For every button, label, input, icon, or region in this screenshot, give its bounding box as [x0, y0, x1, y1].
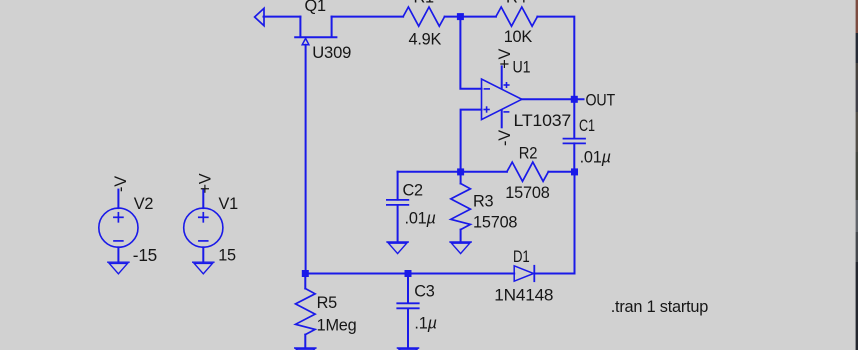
node wien right junction: [571, 168, 578, 175]
svg-text:R4: R4: [506, 0, 527, 7]
ground below C2: [387, 242, 408, 254]
wire Q1 gate down to bottom row: [305, 45, 307, 274]
svg-text:R5: R5: [317, 294, 338, 312]
wire C1 to wien right node: [573, 143, 575, 171]
wire R1 to R4 through node: [445, 16, 496, 18]
wire bottom right corner to D1 cathode: [534, 273, 574, 275]
svg-text:U1: U1: [513, 58, 531, 76]
voltage source V2 -15: [99, 190, 157, 265]
svg-text:OUT: OUT: [586, 91, 616, 109]
node R5 junction: [302, 270, 309, 277]
resistor R1 4.9K: [403, 0, 445, 48]
wire D1 anode to C3 node: [408, 273, 514, 275]
resistor R2 15708: [461, 145, 575, 202]
svg-text:C3: C3: [414, 283, 435, 301]
svg-text:.1µ: .1µ: [414, 314, 436, 332]
svg-text:R3: R3: [473, 192, 494, 210]
wire arrow to Q1 source: [264, 16, 301, 18]
svg-text:Q1: Q1: [305, 0, 326, 15]
node C3 junction: [405, 270, 412, 277]
svg-text:D1: D1: [513, 248, 530, 266]
svg-text:15: 15: [218, 247, 236, 265]
svg-text:4.9K: 4.9K: [409, 30, 442, 48]
wire R4 to right rail down to OUT: [537, 17, 574, 100]
node arrow (off-page pointer at left): [255, 8, 264, 25]
svg-text:-V: -V: [496, 130, 514, 146]
wire C2 to wien left node: [398, 171, 461, 173]
svg-text:V2: V2: [134, 195, 154, 213]
svg-text:15708: 15708: [505, 184, 549, 202]
ground below R3: [450, 242, 471, 254]
svg-text:V1: V1: [219, 195, 239, 213]
svg-text:R1: R1: [414, 0, 435, 7]
diode D1 1N4148: [494, 248, 553, 305]
wire C3 node to R5 node: [305, 273, 408, 275]
svg-text:.tran 1 startup: .tran 1 startup: [611, 298, 709, 316]
svg-text:C1: C1: [579, 117, 595, 135]
svg-text:R2: R2: [519, 145, 538, 163]
capacitor C2 .01u: [387, 172, 436, 242]
svg-text:C2: C2: [403, 182, 424, 200]
ground below C3: [397, 348, 418, 350]
wire Q1 drain to R1: [332, 16, 404, 18]
svg-text:U309: U309: [312, 44, 351, 62]
resistor R3 15708: [451, 172, 518, 242]
svg-text:+V: +V: [197, 173, 215, 193]
wire op-amp non-inverting input down to wien node: [461, 110, 482, 172]
wire node to op-amp inverting input: [460, 17, 481, 89]
voltage source V1 15: [184, 190, 238, 265]
svg-text:1Meg: 1Meg: [317, 317, 357, 335]
svg-text:1N4148: 1N4148: [494, 287, 553, 305]
node junction R1/R4/feedback: [457, 13, 464, 20]
node wien left junction: [457, 168, 464, 175]
right screen edge sliver: [856, 0, 858, 350]
wire right rail wien node down to bottom row: [574, 172, 576, 274]
svg-text:-V: -V: [112, 176, 130, 192]
ground below V1: [193, 262, 214, 274]
capacitor C1 .01u: [564, 117, 611, 166]
svg-text:LT1037: LT1037: [514, 112, 572, 130]
transistor Q1 (U309 JFET): [295, 0, 351, 62]
op-amp U1 LT1037: [482, 58, 572, 130]
ground below V2: [108, 262, 129, 274]
capacitor C3 .1u: [397, 274, 436, 348]
svg-text:-15: -15: [133, 245, 157, 265]
svg-text:+V: +V: [496, 48, 514, 68]
svg-text:.01µ: .01µ: [580, 149, 611, 167]
resistor R5 1Meg: [296, 274, 357, 348]
svg-text:15708: 15708: [473, 214, 517, 232]
svg-text:10K: 10K: [504, 28, 533, 46]
wire OUT down to C1: [573, 99, 575, 138]
wire op-amp output to OUT: [522, 98, 584, 100]
ground below R5: [295, 348, 316, 350]
svg-text:.01µ: .01µ: [405, 210, 436, 228]
node OUT junction: [571, 96, 578, 103]
resistor R4 10K: [496, 0, 538, 46]
